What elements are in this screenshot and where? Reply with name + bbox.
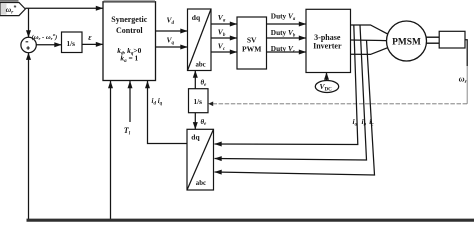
wire Vq to dq/abc, label Vq — [156, 36, 188, 48]
wire sensor to speed feedback — [465, 40, 467, 66]
svg-text:1/s: 1/s — [194, 97, 203, 106]
block integrator 1/s (speed error) — [62, 32, 83, 53]
wire Vdc to inverter — [326, 73, 328, 81]
svg-text:dq: dq — [192, 13, 201, 22]
svg-text:θe: θe — [201, 79, 208, 88]
svg-text:Synergetic: Synergetic — [111, 15, 147, 24]
svg-text:Vb: Vb — [218, 28, 226, 39]
wire Duty Va to inverter, label — [267, 11, 307, 24]
wire Vd to dq/abc, label Vd — [156, 16, 188, 32]
block Synergetic Control — [103, 0, 156, 81]
node wr* reference tag — [0, 3, 25, 16]
svg-text:1/s: 1/s — [67, 39, 76, 48]
wire theta_e down to abc/dq, label — [195, 113, 207, 130]
wire Va to SV PWM, label Va — [211, 13, 237, 24]
wire current ib tap to abc/dq — [215, 25, 367, 160]
svg-text:abc: abc — [196, 62, 206, 69]
wire summing junction to integrator — [36, 44, 61, 46]
svg-text:Vq: Vq — [167, 36, 175, 47]
svg-text:Va: Va — [218, 13, 226, 24]
svg-text:Duty Vb: Duty Vb — [271, 28, 296, 38]
svg-text:Control: Control — [116, 26, 143, 35]
shaft coupling PMSM to sensor — [426, 37, 439, 43]
svg-text:ka = 1: ka = 1 — [120, 54, 138, 64]
wire phase c inverter to PMSM — [351, 48, 389, 55]
svg-text:Inverter: Inverter — [313, 42, 342, 51]
svg-text:(ωr - ωr*): (ωr - ωr*) — [32, 34, 58, 41]
svg-text:PMSM: PMSM — [392, 37, 421, 47]
svg-text:PWM: PWM — [242, 44, 261, 53]
wire phase b inverter to PMSM — [351, 39, 387, 42]
svg-text:3-phase: 3-phase — [314, 33, 341, 42]
block 3-phase inverter — [306, 9, 351, 72]
node labels ia ib ic — [353, 117, 375, 127]
wire phase a inverter to PMSM — [351, 25, 389, 34]
wire Vb to SV PWM, label Vb — [211, 28, 237, 39]
svg-text:dq: dq — [191, 133, 200, 142]
wire wr feedback riser to Synergetic Control — [110, 81, 112, 219]
wire Duty Vb to inverter, label — [267, 28, 307, 38]
wire current ia tap to abc/dq — [215, 25, 358, 145]
node Vdc source ellipse — [315, 81, 338, 93]
svg-text:Duty Vc: Duty Vc — [271, 44, 296, 54]
wire branch down to summing junction — [28, 8, 30, 37]
svg-text:Tl: Tl — [124, 126, 131, 137]
wire theta_e up to dq/abc, label — [195, 71, 207, 89]
svg-text:ε: ε — [88, 33, 92, 42]
svg-text:θe: θe — [201, 118, 208, 127]
wire id iq feedback to Synergetic Control, label — [148, 81, 188, 144]
svg-text:ic: ic — [369, 117, 374, 127]
wire wr* to Synergetic Control — [25, 7, 103, 9]
scan artifact top edge band — [0, 0, 19, 2]
block integrator 1/s (position) — [189, 89, 209, 113]
block dq to abc transform (voltages) — [188, 9, 212, 71]
svg-text:abc: abc — [196, 180, 206, 187]
svg-text:Duty Va: Duty Va — [271, 11, 296, 21]
wire Vc to SV PWM, label Vc — [211, 42, 237, 53]
wire wr feedback riser to summing junction — [28, 53, 30, 219]
sensor block (speed sensor) — [439, 31, 465, 48]
block SV PWM — [237, 17, 267, 69]
svg-text:SV: SV — [247, 35, 257, 44]
wire Duty Vc to inverter, label — [267, 44, 307, 54]
summing junction — [21, 37, 36, 52]
svg-text:ωr: ωr — [459, 75, 468, 86]
motor PMSM — [387, 21, 427, 61]
svg-text:Vc: Vc — [218, 42, 226, 53]
wire wr feedback bottom run — [27, 219, 474, 222]
wire current ic tap to abc/dq — [215, 40, 375, 175]
svg-text:id iq: id iq — [152, 97, 163, 106]
block abc to dq transform (currents) — [187, 129, 214, 190]
wire Tl load torque input, label — [124, 81, 131, 137]
wire integrator to Synergetic Control, label epsilon — [82, 33, 103, 44]
svg-text:Vd: Vd — [167, 16, 175, 27]
wire dotted speed feedback to integrator 1/s — [208, 102, 467, 107]
